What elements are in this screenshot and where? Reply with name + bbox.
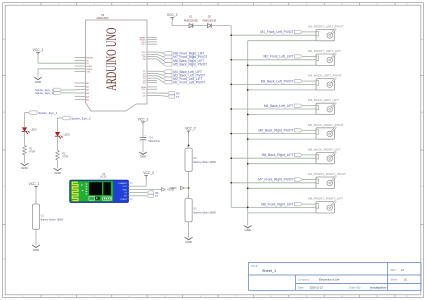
wire flag to servo signal pin bbox=[302, 105, 316, 107]
svg-text:TX: TX bbox=[155, 195, 159, 198]
wire VCC_1 to battery U1 bbox=[35, 189, 37, 204]
svg-text:U3: U3 bbox=[101, 13, 105, 17]
net flag RX bbox=[168, 91, 175, 95]
svg-text:GND: GND bbox=[54, 171, 60, 175]
wire bt GND to gnd arrow flag bbox=[133, 188, 162, 190]
junction bbox=[230, 108, 232, 110]
junction bbox=[230, 84, 232, 86]
svg-text:HC05: HC05 bbox=[100, 176, 107, 179]
ground (motor bus) bbox=[244, 225, 252, 228]
wire capacitor to ground bbox=[142, 140, 144, 152]
wire VCC bus to servo + pin bbox=[231, 108, 316, 110]
svg-text:RX: RX bbox=[155, 192, 159, 195]
svg-text:RX: RX bbox=[124, 196, 128, 198]
ground (U1) bbox=[32, 245, 40, 248]
wire D-pin to net flag M6_Back_Right_LIFT bbox=[157, 57, 163, 61]
svg-text:Company:: Company: bbox=[298, 277, 310, 281]
servo motor U5 M2_FRONT_LEFT_LIFT bbox=[316, 54, 335, 65]
net flag M2_Front_Left_LIFT bbox=[163, 77, 172, 81]
net flag M5_Back_Right_PIVOT bbox=[163, 63, 172, 67]
svg-text:ARDUINO UNO: ARDUINO UNO bbox=[104, 28, 120, 91]
wire D0 to TX flag bbox=[157, 95, 168, 96]
diode D1 PMEG3015E bbox=[189, 24, 193, 28]
junction bbox=[230, 34, 232, 36]
junction bbox=[247, 138, 249, 140]
ground (U3) bbox=[185, 237, 193, 240]
wire D-pin to net flag M3_Back_Left_PIVOT bbox=[157, 74, 163, 76]
svg-text:Battery Holder 18650: Battery Holder 18650 bbox=[193, 161, 216, 164]
arduino left pins A0-A5 bbox=[75, 82, 86, 84]
wire flag to servo signal pin bbox=[302, 154, 316, 156]
svg-text:GND: GND bbox=[244, 228, 250, 232]
arduino left pins RESET 3V 5V GND1 GND0 VIN bbox=[75, 57, 86, 59]
svg-text:Drawn By:: Drawn By: bbox=[349, 285, 361, 289]
net flag M6_Back_Right_LIFT bbox=[163, 59, 172, 63]
svg-text:TX: TX bbox=[176, 95, 180, 99]
svg-text:VIN: VIN bbox=[86, 72, 90, 74]
ground (LED1) bbox=[21, 163, 29, 166]
svg-text:Battery Holder 18650: Battery Holder 18650 bbox=[41, 218, 64, 221]
servo motor U7 M4_BACK_LEFT_LIFT bbox=[316, 103, 335, 114]
ground (LED2) bbox=[54, 168, 62, 171]
capacitor C4 560uF/10v bbox=[140, 136, 147, 138]
svg-text:GND0: GND0 bbox=[140, 40, 147, 42]
VCC bus vertical wire bbox=[230, 26, 232, 208]
svg-text:REV:: REV: bbox=[391, 269, 397, 272]
wire flag to servo signal pin bbox=[302, 31, 316, 33]
wire VCC_2 to capacitor C4 bbox=[142, 125, 144, 138]
wire battery U1 to ground bbox=[35, 229, 37, 245]
svg-text:M5_Back_Right_PIVOT: M5_Back_Right_PIVOT bbox=[173, 63, 207, 67]
junction bbox=[230, 182, 232, 184]
svg-text:Sheet:: Sheet: bbox=[391, 278, 399, 281]
wire U2 to U3 midpoint bbox=[188, 172, 190, 199]
svg-text:GND: GND bbox=[33, 248, 39, 252]
wire GND bus to servo - pin bbox=[248, 138, 316, 140]
svg-text:M5_Back_Right_PIVOT: M5_Back_Right_PIVOT bbox=[259, 129, 294, 133]
wire VCC_2 to diode D1 bbox=[171, 20, 173, 25]
net flag M4_Back_Left_LIFT bbox=[163, 70, 172, 74]
diode D2 PMEG3015E bbox=[207, 24, 211, 28]
bt pin TX bbox=[128, 192, 133, 194]
LED LED1 bbox=[22, 128, 26, 132]
net flag RX (bt) bbox=[147, 191, 154, 195]
wire D-pin to net flag M4_Back_Left_LIFT bbox=[157, 70, 163, 72]
net flag Spider_Eye_2 bbox=[61, 116, 70, 120]
svg-text:GND: GND bbox=[122, 189, 127, 191]
svg-text:M4_BACK_LEFT_LIFT: M4_BACK_LEFT_LIFT bbox=[308, 98, 339, 102]
GND bus vertical wire bbox=[247, 41, 249, 226]
gnd arrow flag (bluetooth) bbox=[162, 188, 166, 192]
svg-text:TITLE:: TITLE: bbox=[251, 266, 258, 268]
svg-text:LED1: LED1 bbox=[31, 129, 38, 132]
junction bbox=[230, 59, 232, 61]
wire LED to resistor R1 bbox=[24, 131, 26, 145]
svg-text:VCC_3: VCC_3 bbox=[143, 171, 154, 175]
servo motor U11 M8_FRONT_RIGHT_LIFT bbox=[316, 202, 335, 213]
bt pin ENABLE bbox=[128, 182, 133, 184]
wire GND bus to servo - pin bbox=[248, 212, 316, 214]
bt pin VCC bbox=[128, 185, 133, 187]
svg-text:-: - bbox=[187, 172, 188, 176]
wire flag to LED LED1 bbox=[25, 112, 29, 114]
svg-text:1/1: 1/1 bbox=[404, 278, 408, 281]
wire D2 to VCC bus bbox=[211, 25, 231, 27]
title block bbox=[249, 263, 422, 291]
svg-text:M8_FRONT_RIGHT_LIFT: M8_FRONT_RIGHT_LIFT bbox=[308, 197, 343, 201]
svg-text:1.0: 1.0 bbox=[401, 269, 405, 272]
svg-text:RESET: RESET bbox=[86, 58, 94, 60]
junction bbox=[247, 207, 249, 209]
wire GND bus to servo - pin bbox=[248, 163, 316, 165]
wire D1 to D2 bbox=[193, 25, 207, 27]
svg-text:GND: GND bbox=[140, 155, 146, 159]
wire bt TX to RX flag bbox=[133, 192, 147, 194]
wire Spider_Eye_1 flag to A2 bbox=[62, 89, 75, 91]
net flag M1_Front_Left_PIVOT bbox=[163, 80, 172, 84]
svg-text:Spider_Eye_2: Spider_Eye_2 bbox=[71, 116, 91, 120]
svg-text:VCC_2: VCC_2 bbox=[138, 117, 149, 121]
arduino right pins bbox=[147, 36, 157, 38]
wire VCC bus to servo + pin bbox=[231, 157, 316, 159]
svg-text:M5_BACK_RIGHT_PIVOT: M5_BACK_RIGHT_PIVOT bbox=[308, 123, 344, 127]
svg-text:VCC_2: VCC_2 bbox=[167, 13, 178, 17]
svg-text:M1_FRONT_LEFT_PIVOT: M1_FRONT_LEFT_PIVOT bbox=[308, 24, 344, 28]
junction bbox=[247, 64, 249, 66]
wire GND bus to servo - pin bbox=[248, 64, 316, 66]
servo motor U9 M6_BACK_RIGHT_LIFT bbox=[316, 152, 335, 163]
net flag TX bbox=[168, 95, 175, 99]
svg-text:PMEG3015E: PMEG3015E bbox=[202, 19, 216, 22]
svg-text:M8_Front_Right_LIFT: M8_Front_Right_LIFT bbox=[261, 202, 293, 206]
wire VCC bus to servo + pin bbox=[231, 59, 316, 61]
junction (midpoint) bbox=[188, 187, 190, 189]
svg-text:-: - bbox=[187, 222, 188, 226]
svg-text:M6_BACK_RIGHT_LIFT: M6_BACK_RIGHT_LIFT bbox=[308, 147, 341, 151]
svg-text:ARDUINO: ARDUINO bbox=[97, 16, 109, 20]
servo motor U10 M7_FRONT_RIGHT_PIVOT bbox=[316, 177, 335, 188]
junction bbox=[247, 114, 249, 116]
junction bbox=[188, 144, 190, 146]
wire GND bus to servo - pin bbox=[248, 187, 316, 189]
wire Spider_Eye_2 flag to A3 bbox=[62, 92, 75, 94]
resistor R1 470R bbox=[23, 146, 27, 155]
wire VCC bus to servo + pin bbox=[231, 83, 316, 85]
net flag M8_Front_Right_LIFT bbox=[163, 51, 172, 55]
svg-text:M4_Back_Left_LIFT: M4_Back_Left_LIFT bbox=[264, 104, 294, 108]
net flag M7_Front_Right_PIVOT bbox=[163, 55, 172, 59]
svg-text:VCC: VCC bbox=[122, 186, 127, 188]
LED LED2 bbox=[55, 132, 59, 136]
wire GND bus to servo - pin bbox=[248, 114, 316, 116]
bt pin GND bbox=[128, 188, 133, 190]
servo motor U6 M3_BACK_LEFT_PIVOT bbox=[316, 79, 335, 90]
svg-text:VCC_2: VCC_2 bbox=[185, 127, 196, 131]
resistor R2 470R bbox=[56, 151, 60, 160]
svg-text:M1_Front_Left_PIVOT: M1_Front_Left_PIVOT bbox=[260, 30, 293, 34]
net flag Spider_Eye_1 bbox=[28, 111, 37, 115]
svg-text:GND1: GND1 bbox=[86, 66, 93, 68]
ground (arduino left) bbox=[34, 77, 42, 80]
wire D-pin to net flag M2_Front_Left_LIFT bbox=[157, 76, 163, 79]
wire GND0 pin to ground bbox=[38, 68, 86, 70]
svg-text:M7_Front_Right_PIVOT: M7_Front_Right_PIVOT bbox=[258, 178, 293, 182]
net flag TX (bt) bbox=[147, 194, 154, 198]
svg-text:470R: 470R bbox=[29, 151, 35, 154]
svg-text:M6_Back_Right_LIFT: M6_Back_Right_LIFT bbox=[262, 153, 294, 157]
bt pin STATE bbox=[128, 198, 133, 200]
arduino U3 outline bbox=[86, 20, 148, 111]
wire LED to resistor R2 bbox=[57, 136, 59, 150]
junction bbox=[230, 133, 232, 135]
svg-text:M1_Front_Left_PIVOT: M1_Front_Left_PIVOT bbox=[173, 80, 205, 84]
wire VCC_3 to bt VCC bbox=[145, 178, 147, 186]
svg-text:GND: GND bbox=[35, 80, 41, 84]
svg-text:M3_BACK_LEFT_PIVOT: M3_BACK_LEFT_PIVOT bbox=[308, 74, 342, 78]
svg-text:Spider_Eye_1: Spider_Eye_1 bbox=[38, 111, 58, 115]
svg-text:Date:: Date: bbox=[298, 285, 304, 289]
svg-text:560uF/10v: 560uF/10v bbox=[148, 140, 161, 143]
svg-text:GND: GND bbox=[185, 240, 191, 244]
wire flag to servo signal pin bbox=[302, 129, 316, 131]
junction bbox=[230, 157, 232, 159]
wire D-pin to net flag M1_Front_Left_PIVOT bbox=[157, 78, 163, 82]
wire flag to servo signal pin bbox=[302, 80, 316, 82]
svg-text:Sheet_1: Sheet_1 bbox=[262, 269, 276, 273]
svg-text:M7_FRONT_RIGHT_PIVOT: M7_FRONT_RIGHT_PIVOT bbox=[308, 172, 346, 176]
servo motor U4 M1_FRONT_LEFT_PIVOT bbox=[316, 29, 335, 40]
wire resistor to ground bbox=[57, 160, 59, 169]
svg-text:Spider_Eye_2: Spider_Eye_2 bbox=[35, 91, 54, 95]
wire flag to servo signal pin bbox=[302, 203, 316, 205]
svg-text:VCC_1: VCC_1 bbox=[33, 48, 44, 52]
svg-text:Electronics is Life: Electronics is Life bbox=[319, 277, 340, 281]
servo motor U8 M5_BACK_RIGHT_PIVOT bbox=[316, 128, 335, 139]
svg-text:LED2: LED2 bbox=[64, 133, 71, 136]
wire GND bus to servo - pin bbox=[248, 89, 316, 91]
wire D-pin to net flag M7_Front_Right_PIVOT bbox=[157, 54, 163, 57]
svg-text:RX: RX bbox=[176, 92, 180, 96]
svg-text:M3_Back_Left_PIVOT: M3_Back_Left_PIVOT bbox=[261, 79, 294, 83]
wire resistor to ground bbox=[24, 155, 26, 164]
net flag M3_Back_Left_PIVOT bbox=[163, 73, 172, 77]
svg-text:VCC_1: VCC_1 bbox=[29, 182, 40, 186]
wire flag to LED LED2 bbox=[58, 117, 62, 119]
wire flag to servo signal pin bbox=[302, 56, 316, 58]
svg-text:M2_FRONT_LEFT_LIFT: M2_FRONT_LEFT_LIFT bbox=[308, 49, 341, 53]
svg-text:470R: 470R bbox=[62, 156, 68, 159]
bt pin RX bbox=[128, 195, 133, 197]
svg-text:Battery Holder 18650: Battery Holder 18650 bbox=[193, 211, 216, 214]
svg-text:2020-11-13: 2020-11-13 bbox=[310, 285, 324, 289]
ground (C4) bbox=[139, 152, 147, 155]
junction bbox=[247, 187, 249, 189]
wire D-pin to net flag M8_Front_Right_LIFT bbox=[157, 52, 163, 53]
svg-text:M2_Front_Left_LIFT: M2_Front_Left_LIFT bbox=[263, 55, 293, 59]
wire VCC bus to servo + pin bbox=[231, 34, 316, 36]
wire battery U3 to ground bbox=[188, 222, 190, 238]
svg-text:GND0: GND0 bbox=[86, 69, 93, 71]
wire VCC bus to servo + pin bbox=[231, 182, 316, 184]
wire VCC bus to servo + pin bbox=[231, 133, 316, 135]
wire D-pin to net flag M5_Back_Right_PIVOT bbox=[157, 59, 163, 64]
wire VCC_2 to battery U2 bbox=[188, 134, 190, 148]
svg-text:vinayakjadhav: vinayakjadhav bbox=[370, 285, 387, 289]
wire bt RX to TX flag bbox=[133, 195, 147, 197]
junction bbox=[247, 163, 249, 165]
svg-text:GND: GND bbox=[21, 166, 27, 170]
wire flag to servo signal pin bbox=[302, 179, 316, 181]
svg-text:PMEG3015E: PMEG3015E bbox=[184, 19, 198, 22]
svg-text:-: - bbox=[34, 230, 35, 234]
wire D1 to RX flag bbox=[157, 92, 168, 94]
wire VCC_1 to 5V pin bbox=[37, 55, 39, 63]
svg-text:GND: GND bbox=[170, 186, 178, 190]
junction bbox=[247, 89, 249, 91]
